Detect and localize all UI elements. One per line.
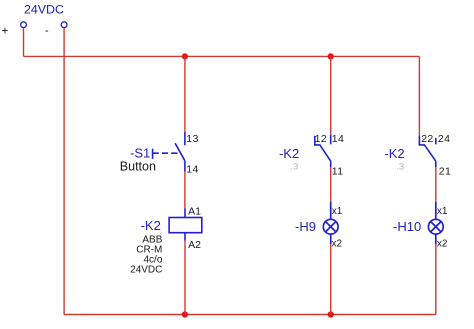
- svg-text:-H10: -H10: [393, 219, 421, 234]
- lamp H9: [323, 202, 338, 244]
- wire top bus to K2 contact pin 14: [330, 56, 332, 134]
- svg-text:14: 14: [332, 133, 344, 145]
- junction dot top bus at S1 branch: [182, 53, 188, 59]
- wire contact pin 11 to lamp H9: [330, 167, 332, 202]
- wire lamp H9 to bottom bus: [330, 244, 332, 314]
- svg-text:-K2: -K2: [384, 146, 404, 161]
- svg-text:-: -: [45, 25, 49, 37]
- svg-text:24: 24: [438, 133, 450, 145]
- svg-text:-K2: -K2: [141, 218, 161, 233]
- wire coil A2 to bottom bus: [184, 241, 186, 315]
- wire from - terminal down to bottom bus: [63, 28, 65, 315]
- svg-text:.3: .3: [290, 162, 298, 173]
- relay coil K2: [169, 209, 202, 241]
- svg-text:-K2: -K2: [279, 146, 299, 161]
- svg-text:22: 22: [421, 133, 433, 145]
- svg-text:24VDC: 24VDC: [24, 2, 64, 16]
- wire top bus: [24, 55, 420, 57]
- svg-text:x1: x1: [332, 206, 343, 217]
- svg-text:x2: x2: [437, 239, 448, 250]
- svg-text:24VDC: 24VDC: [130, 264, 162, 275]
- terminal circle negative: [61, 22, 67, 28]
- terminal circle positive: [21, 22, 27, 28]
- svg-text:x2: x2: [332, 239, 343, 250]
- wire top bus corner down to K2 contact pin 22: [418, 56, 420, 136]
- svg-text:A1: A1: [188, 206, 201, 218]
- svg-text:11: 11: [332, 166, 344, 178]
- pushbutton S1: [153, 132, 185, 172]
- wire lamp H10 to bottom bus: [435, 244, 437, 314]
- svg-text:Button: Button: [120, 160, 156, 174]
- wire S1 pin 14 to coil A1: [184, 172, 186, 209]
- svg-text:x1: x1: [437, 206, 448, 217]
- junction dot top bus at H9 branch: [328, 53, 334, 59]
- svg-text:-H9: -H9: [295, 219, 316, 234]
- svg-text:14: 14: [186, 164, 198, 176]
- svg-text:-S1: -S1: [130, 145, 150, 160]
- wire from + terminal down: [23, 28, 25, 57]
- relay contact K2 changeover 12-14-11: [315, 134, 331, 167]
- wire contact pin 21 to lamp H10: [435, 167, 437, 202]
- relay contact K2 changeover 22-24-21: [419, 136, 436, 167]
- svg-text:+: +: [2, 23, 9, 37]
- svg-text:13: 13: [186, 133, 198, 145]
- junction dot bottom bus at K2 coil branch: [182, 311, 188, 317]
- lamp H10: [428, 202, 443, 244]
- wire top bus to S1 pin 13: [184, 56, 186, 131]
- svg-text:21: 21: [439, 166, 451, 178]
- junction dot bottom bus at H9 branch: [328, 311, 334, 317]
- wire bottom bus: [64, 314, 436, 316]
- svg-text:.3: .3: [396, 162, 404, 173]
- svg-text:12: 12: [315, 133, 327, 145]
- svg-text:A2: A2: [188, 239, 201, 251]
